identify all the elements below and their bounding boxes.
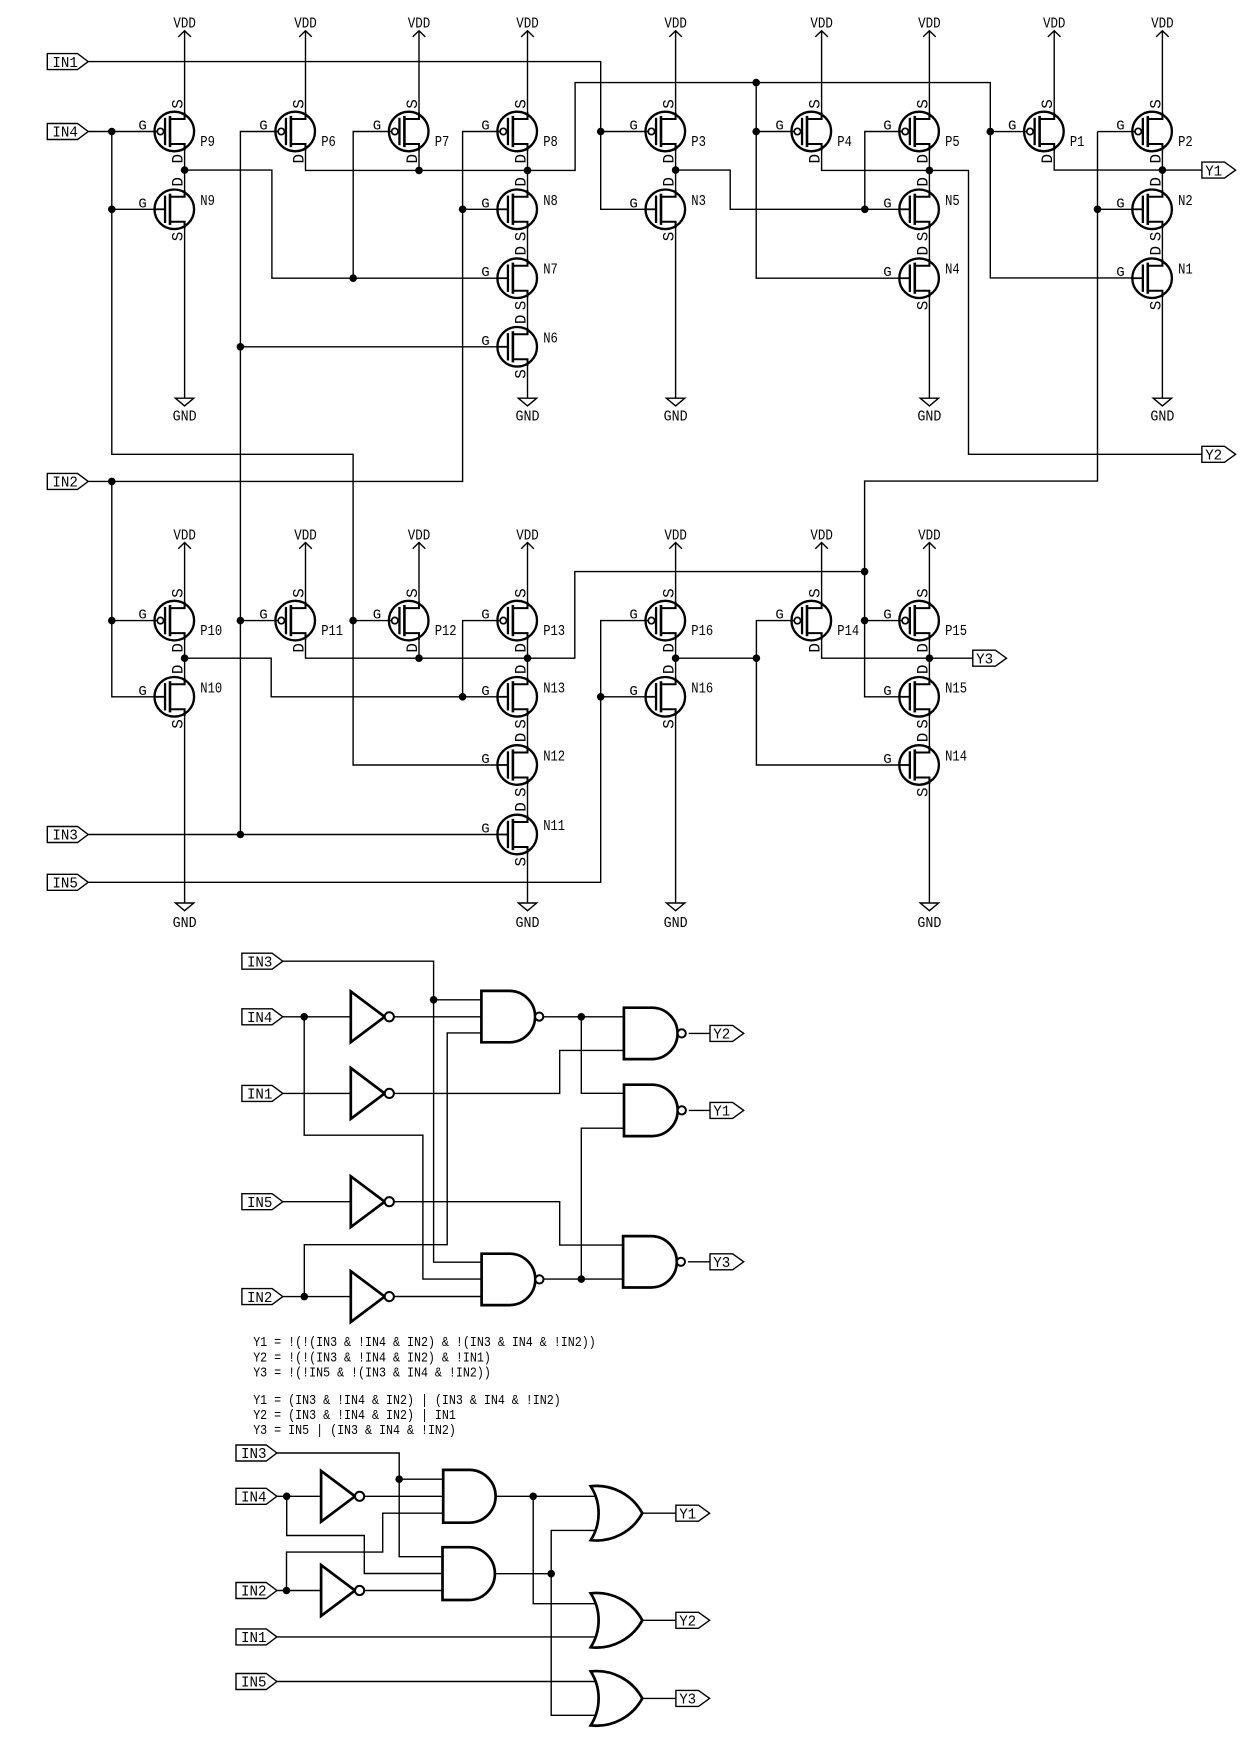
junction P2.D/N2.D — [1159, 166, 1167, 174]
svg-text:S: S — [661, 99, 679, 109]
wire P5 drain to N5 drain — [928, 144, 930, 197]
transistor N4 (NMOS) — [883, 246, 960, 310]
svg-text:P8: P8 — [543, 134, 558, 151]
transistor N8 (NMOS) — [481, 177, 558, 241]
transistor N2 (NMOS) — [1116, 177, 1193, 241]
wire notIN1 to N5 gate — [676, 170, 900, 209]
wire notIN4 up to P7 gate — [353, 132, 391, 279]
junction P15.D/N15.D — [926, 654, 934, 662]
svg-text:Y1: Y1 — [1205, 164, 1222, 180]
svg-text:P11: P11 — [321, 623, 343, 640]
svg-text:GND: GND — [917, 410, 941, 426]
transistor P5 (PMOS) — [883, 99, 960, 163]
wire net B to NAND_Y3 input2 — [543, 1278, 623, 1280]
wire N13 source to N12 drain — [527, 709, 529, 752]
transistor N10 (NMOS) — [138, 664, 222, 728]
transistor P6 (PMOS) — [259, 99, 336, 163]
ground — [516, 847, 540, 932]
junction notIN1/P5.G — [861, 206, 869, 214]
junction IN4/N9.G — [108, 206, 116, 214]
input flag IN3 — [242, 953, 283, 971]
inverter INV_IN5 — [351, 1176, 394, 1227]
wire notIN1 to NAND_Y2 input2 — [394, 1050, 624, 1093]
junction AND_B out — [547, 1570, 555, 1578]
junction IN3 node mid — [430, 996, 438, 1004]
junction AND_A out — [529, 1493, 537, 1501]
wire IN4: flag to P9 gate — [88, 131, 157, 133]
junction IN3/P11.G — [237, 617, 245, 625]
svg-text:N8: N8 — [543, 193, 558, 210]
svg-text:IN2: IN2 — [241, 1585, 267, 1601]
nand gate NAND_Y2 — [624, 1008, 686, 1059]
wire N15 source to N14 drain — [928, 709, 930, 752]
output flag Y1 — [710, 1102, 744, 1120]
svg-text:S: S — [914, 588, 932, 598]
svg-text:Y2: Y2 — [679, 1615, 696, 1631]
power VDD — [1043, 17, 1066, 119]
svg-text:IN1: IN1 — [247, 1088, 273, 1104]
svg-text:Y1: Y1 — [679, 1507, 696, 1523]
junction P9.D/N9.D — [181, 166, 189, 174]
nand gate NAND_Y1 — [624, 1085, 686, 1136]
wire net B to NAND_Y1 input2 — [581, 1128, 624, 1279]
junction net A mid — [578, 1013, 586, 1021]
svg-text:G: G — [629, 608, 637, 624]
svg-text:N5: N5 — [945, 193, 960, 210]
svg-text:N1: N1 — [1178, 262, 1193, 279]
wire IN3 branch to P11 gate — [240, 620, 278, 622]
svg-text:N2: N2 — [1178, 193, 1193, 210]
wire IN3 to AND_A input1 — [399, 1478, 443, 1480]
output flag Y3 — [710, 1254, 744, 1272]
svg-text:P15: P15 — [945, 623, 967, 640]
input flag IN2 — [47, 473, 88, 491]
svg-text:GND: GND — [516, 916, 540, 932]
output flag Y2 — [710, 1025, 744, 1043]
svg-text:IN2: IN2 — [52, 476, 78, 492]
wire P8 drain to N8 drain — [527, 144, 529, 197]
wire P7 drain — [418, 144, 420, 170]
transistor P10 (PMOS) — [138, 588, 222, 652]
input flag IN5 — [242, 1194, 283, 1212]
wire IN4 branch to N9 gate — [112, 208, 155, 210]
svg-text:GND: GND — [173, 916, 197, 932]
wire IN2: flag right, up to P8 gate — [88, 132, 500, 482]
junction IN1/P3.G — [597, 128, 605, 136]
wire P2 drain to N2 drain — [1161, 144, 1163, 197]
wire net A: P6 drain bus to N1 gate — [306, 83, 1133, 278]
svg-text:P13: P13 — [543, 623, 565, 640]
svg-text:N11: N11 — [543, 818, 565, 835]
svg-text:Y2 = (IN3 & !IN4 & IN2) | IN1: Y2 = (IN3 & !IN4 & IN2) | IN1 — [253, 1408, 456, 1424]
wire IN5: flag right, up to P16 gate — [88, 621, 648, 883]
power VDD — [408, 528, 431, 608]
junction notIN5 node — [753, 654, 761, 662]
wire P9 drain to N9 drain — [184, 144, 186, 197]
nand gate NAND3A — [481, 991, 543, 1042]
input flag IN1 — [242, 1085, 283, 1103]
svg-text:GND: GND — [664, 916, 688, 932]
svg-text:IN2: IN2 — [247, 1291, 273, 1307]
wire IN2 down to N10 gate — [112, 481, 155, 696]
junction notIN4/P7.G — [349, 274, 357, 282]
svg-text:G: G — [629, 684, 637, 700]
wire Y3 output — [688, 1261, 710, 1263]
svg-text:Y2 = !(!(IN3 & !IN4 & IN2) & !: Y2 = !(!(IN3 & !IN4 & IN2) & !IN1) — [253, 1350, 491, 1366]
wire net B branch to N2 gate — [1098, 208, 1133, 210]
ground — [664, 222, 688, 426]
svg-text:Y3: Y3 — [679, 1693, 696, 1709]
transistor P2 (PMOS) — [1116, 99, 1193, 163]
svg-text:IN5: IN5 — [247, 1196, 273, 1212]
svg-text:G: G — [373, 608, 381, 624]
svg-text:P1: P1 — [1070, 134, 1085, 151]
wire net B vertical: P2 gate to N15 gate — [865, 132, 1098, 697]
wire IN5 branch to N16 gate — [601, 696, 646, 698]
junction IN4 node — [108, 128, 116, 136]
wire IN1: flag to corner, down to N3 gate — [88, 62, 645, 210]
wire N12 source to N11 drain — [527, 778, 529, 823]
svg-text:S: S — [807, 588, 825, 598]
svg-text:S: S — [404, 99, 422, 109]
wire IN5 to inverter — [283, 1201, 351, 1203]
junction A/P1.G — [987, 128, 995, 136]
wire IN2 branch to N8 gate — [463, 208, 498, 210]
transistor P11 (PMOS) — [259, 588, 343, 652]
wire net B branch to P15 gate — [865, 620, 902, 622]
svg-text:G: G — [883, 684, 891, 700]
svg-text:P3: P3 — [691, 134, 706, 151]
inverter INV_IN2_B — [321, 1565, 364, 1616]
ground — [516, 359, 540, 425]
wire Y2 output — [689, 1032, 710, 1034]
svg-text:Y2: Y2 — [1205, 449, 1222, 465]
svg-text:GND: GND — [516, 410, 540, 426]
power VDD — [1151, 17, 1174, 119]
wire notIN2 to AND_B input3 — [364, 1590, 442, 1592]
transistor N6 (NMOS) — [481, 314, 558, 378]
svg-text:S: S — [1039, 99, 1057, 109]
input flag IN2 — [236, 1583, 277, 1601]
output flag Y2 — [676, 1612, 710, 1630]
wire IN4 to NAND3B input2 — [304, 1017, 481, 1279]
wire net A to NAND_Y1 input1 — [581, 1017, 624, 1094]
wire P12 drain — [418, 633, 420, 658]
svg-text:S: S — [512, 588, 530, 598]
transistor P1 (PMOS) — [1008, 99, 1085, 163]
junction IN2 node mid — [301, 1293, 309, 1301]
wire P13 drain to N13 drain — [527, 633, 529, 684]
wire IN1 branch to P3 gate — [601, 131, 649, 133]
wire net A branch to P4 gate — [756, 131, 794, 133]
svg-text:N14: N14 — [945, 749, 967, 766]
svg-text:N7: N7 — [543, 262, 558, 279]
wire net Y3: P14 drain to Y3 flag — [822, 633, 973, 658]
wire IN4 to AND_B input2 — [287, 1496, 443, 1573]
transistor P13 (PMOS) — [481, 588, 565, 652]
wire net Y1: P1 drain to Y1 flag — [1054, 144, 1202, 170]
wire net A branch to P1 gate — [990, 131, 1027, 133]
output flag Y1 — [676, 1505, 710, 1523]
wire IN1 to inverter — [283, 1092, 351, 1094]
input flag IN4 — [242, 1009, 283, 1027]
svg-text:P5: P5 — [945, 134, 960, 151]
junction P12.D — [415, 654, 423, 662]
svg-text:N3: N3 — [691, 193, 706, 210]
wire notIN4 to AND_A input2 — [364, 1495, 443, 1497]
wire notIN1 up to P5 gate — [865, 132, 902, 210]
svg-text:P7: P7 — [435, 134, 450, 151]
svg-text:Y3: Y3 — [976, 652, 993, 668]
output flag Y3 — [676, 1690, 710, 1708]
power VDD — [516, 17, 539, 119]
wire notIN2 to NAND3B input3 — [394, 1296, 482, 1298]
wire net B: P11 drain bus to junction — [306, 572, 865, 659]
wire N2 source to N1 drain — [1161, 222, 1163, 266]
wire AND_B out to OR_Y1 input2 — [551, 1530, 595, 1573]
wire net A to NAND_Y2 input1 — [543, 1016, 624, 1018]
wire IN2 to NAND3A input3 — [304, 1033, 481, 1297]
svg-text:S: S — [290, 588, 308, 598]
wire notIN4 to N7 gate — [185, 170, 498, 278]
svg-text:N12: N12 — [543, 749, 565, 766]
svg-text:S: S — [170, 99, 188, 109]
svg-text:N13: N13 — [543, 680, 565, 697]
svg-text:GND: GND — [1150, 410, 1174, 426]
junction P7.D — [415, 167, 423, 175]
svg-text:P12: P12 — [435, 623, 457, 640]
wire OR_Y3 to Y3 flag — [642, 1697, 676, 1699]
junction notIN2/P13.G — [459, 693, 467, 701]
transistor P12 (PMOS) — [373, 588, 457, 652]
wire AND_B out to OR_Y3 input2 — [551, 1574, 595, 1716]
svg-text:P10: P10 — [200, 623, 222, 640]
power VDD — [664, 528, 687, 608]
transistor N15 (NMOS) — [883, 664, 967, 728]
power VDD — [664, 17, 687, 119]
wire notIN2 to N13 gate — [185, 658, 498, 697]
svg-text:IN3: IN3 — [241, 1447, 267, 1463]
svg-text:G: G — [138, 684, 146, 700]
power VDD — [173, 528, 196, 608]
nand gate NAND3B — [482, 1254, 544, 1305]
power VDD — [918, 528, 941, 608]
power VDD — [810, 17, 833, 119]
transistor N16 (NMOS) — [629, 664, 713, 728]
svg-text:P4: P4 — [837, 134, 852, 151]
input flag IN3 — [47, 827, 88, 845]
svg-text:IN3: IN3 — [52, 829, 78, 845]
wire IN4 vertical to block2 N12 gate — [112, 132, 498, 766]
equations (NAND form) — [253, 1335, 596, 1381]
junction P13.D/N13.D — [524, 654, 532, 662]
wire IN4 to inverter — [283, 1016, 351, 1018]
wire IN5 to OR_Y3 input1 — [277, 1681, 596, 1683]
input flag IN5 — [236, 1674, 277, 1692]
wire notIN5 to NAND_Y3 input1 — [394, 1202, 623, 1245]
wire N8 source to N7 drain — [527, 222, 529, 266]
wire notIN2 up to P13 gate — [463, 621, 501, 697]
junction IN4 node mid — [300, 1013, 308, 1021]
power VDD — [294, 528, 317, 608]
wire IN3 to NAND3B input1 — [283, 961, 482, 1262]
wire P15 drain to N15 drain — [928, 633, 930, 684]
wire AND_A out to OR_Y1 input1 — [496, 1495, 596, 1497]
svg-text:S: S — [404, 588, 422, 598]
inverter INV_IN4 — [351, 991, 394, 1042]
equations (sum-of-products form) — [253, 1393, 561, 1439]
ground — [1150, 291, 1174, 426]
junction B/N2.G — [1094, 206, 1102, 214]
input flag IN4 — [47, 124, 88, 142]
svg-text:S: S — [512, 99, 530, 109]
wire Y1 output — [689, 1109, 710, 1111]
transistor P9 (PMOS) — [138, 99, 215, 163]
svg-text:N16: N16 — [691, 680, 713, 697]
ground — [917, 291, 941, 426]
input flag IN1 — [47, 54, 88, 72]
wire net A down to N4 gate — [756, 83, 899, 279]
junction P5.D/N5.D — [926, 167, 934, 175]
wire IN3: flag to N11 gate — [88, 834, 497, 836]
inverter INV_IN2 — [351, 1271, 394, 1322]
transistor P4 (PMOS) — [775, 99, 852, 163]
svg-text:N15: N15 — [945, 680, 967, 697]
junction IN2/P10.G — [108, 617, 116, 625]
inverter INV_IN4_B — [321, 1471, 364, 1522]
transistor P16 (PMOS) — [629, 588, 713, 652]
inverter INV_IN1 — [351, 1068, 394, 1119]
svg-text:IN1: IN1 — [241, 1631, 267, 1647]
transistor N3 (NMOS) — [629, 177, 706, 241]
transistor N11 (NMOS) — [481, 802, 565, 866]
svg-text:IN1: IN1 — [52, 56, 78, 72]
junction IN3/N6.G — [237, 343, 245, 351]
input flag IN3 — [236, 1445, 277, 1463]
junction IN2 node bottom — [283, 1587, 291, 1595]
input flag IN1 — [236, 1629, 277, 1647]
input flag IN4 — [236, 1488, 277, 1506]
wire IN2 branch to P10 gate — [112, 620, 157, 622]
transistor N5 (NMOS) — [883, 177, 960, 241]
svg-text:Y3: Y3 — [713, 1256, 730, 1272]
transistor P7 (PMOS) — [373, 99, 450, 163]
wire net B to P2 gate — [1098, 131, 1136, 133]
svg-text:G: G — [259, 608, 267, 624]
input flag IN2 — [242, 1289, 283, 1307]
or gate OR_Y3 — [591, 1671, 643, 1726]
junction IN2/N8.G — [459, 206, 467, 214]
nand gate NAND_Y3 — [623, 1236, 685, 1287]
wire IN3 branch to N6 gate — [240, 346, 497, 348]
wire IN3 vertical up to P6 gate — [240, 132, 278, 835]
wire IN2 to AND_A input3 — [287, 1513, 444, 1590]
svg-text:Y1 = (IN3 & !IN4 & IN2) | (IN3: Y1 = (IN3 & !IN4 & IN2) | (IN3 & IN4 & !… — [253, 1393, 561, 1409]
and gate AND_A — [443, 1470, 495, 1523]
svg-text:IN4: IN4 — [247, 1011, 273, 1027]
junction IN4/P12.G — [349, 617, 357, 625]
junction A/P4.G — [752, 128, 760, 136]
wire net Y2: P4 drain to Y2 flag — [822, 144, 1202, 454]
transistor N1 (NMOS) — [1116, 246, 1193, 310]
svg-text:Y3 = !(!IN5 & !(IN3 & IN4 & !I: Y3 = !(!IN5 & !(IN3 & IN4 & !IN2)) — [253, 1365, 491, 1381]
transistor N9 (NMOS) — [138, 177, 215, 241]
wire P16 drain to N16 drain — [675, 633, 677, 684]
wire notIN4 to NAND3A input2 — [394, 1016, 481, 1018]
junction P16.D/N16.D — [672, 654, 680, 662]
transistor N14 (NMOS) — [883, 733, 967, 797]
svg-text:S: S — [290, 99, 308, 109]
junction B/P15.G — [861, 617, 869, 625]
transistor P15 (PMOS) — [883, 588, 967, 652]
wire N7 source to N6 drain — [527, 291, 529, 335]
output flag Y2 — [1202, 446, 1236, 464]
junction IN3 node — [237, 831, 245, 839]
ground — [173, 709, 197, 932]
svg-text:IN4: IN4 — [52, 126, 78, 142]
svg-text:S: S — [661, 588, 679, 598]
ground — [917, 778, 941, 932]
wire P10 drain to N10 drain — [184, 633, 186, 684]
wire AND_A out to OR_Y2 input1 — [533, 1496, 595, 1603]
junction P10.D/N10.D — [181, 654, 189, 662]
junction IN5/N16.G — [597, 693, 605, 701]
svg-text:N6: N6 — [543, 330, 558, 347]
junction IN4 node bottom — [283, 1493, 291, 1501]
or gate OR_Y1 — [591, 1486, 643, 1541]
svg-text:Y1 = !(!(IN3 & !IN4 & IN2) & !: Y1 = !(!(IN3 & !IN4 & IN2) & !(IN3 & IN4… — [253, 1335, 596, 1351]
ground — [173, 222, 197, 426]
wire IN4 to inverter — [277, 1495, 321, 1497]
wire notIN5 bus — [676, 657, 757, 659]
svg-text:P14: P14 — [837, 623, 859, 640]
wire OR_Y2 to Y2 flag — [642, 1619, 676, 1621]
and gate AND_B — [443, 1547, 495, 1600]
power VDD — [516, 528, 539, 608]
wire AND_B out — [495, 1573, 551, 1575]
svg-text:IN5: IN5 — [52, 877, 78, 893]
svg-text:IN5: IN5 — [241, 1676, 267, 1692]
junction P8.D/N8.D — [524, 167, 532, 175]
junction net B node — [861, 568, 869, 576]
svg-text:P9: P9 — [200, 134, 215, 151]
transistor P3 (PMOS) — [629, 99, 706, 163]
wire IN1 to OR_Y2 input2 — [277, 1636, 596, 1638]
svg-text:G: G — [1116, 265, 1124, 281]
svg-text:P6: P6 — [321, 134, 336, 151]
wire IN2 to inverter — [283, 1296, 351, 1298]
junction IN2 node — [108, 478, 116, 486]
svg-text:N4: N4 — [945, 262, 960, 279]
wire N5 source to N4 drain — [928, 222, 930, 266]
svg-text:S: S — [807, 99, 825, 109]
wire IN3 to NAND3A input1 — [434, 999, 482, 1001]
svg-text:S: S — [914, 99, 932, 109]
svg-text:G: G — [138, 608, 146, 624]
transistor N13 (NMOS) — [481, 664, 565, 728]
transistor N7 (NMOS) — [481, 246, 558, 310]
input flag IN5 — [47, 874, 88, 892]
svg-text:N10: N10 — [200, 680, 222, 697]
svg-text:Y1: Y1 — [713, 1105, 730, 1121]
power VDD — [173, 17, 196, 119]
power VDD — [918, 17, 941, 119]
svg-text:P16: P16 — [691, 623, 713, 640]
svg-text:GND: GND — [917, 916, 941, 932]
transistor P8 (PMOS) — [481, 99, 558, 163]
power VDD — [294, 17, 317, 119]
junction IN3 node bottom — [395, 1475, 403, 1483]
